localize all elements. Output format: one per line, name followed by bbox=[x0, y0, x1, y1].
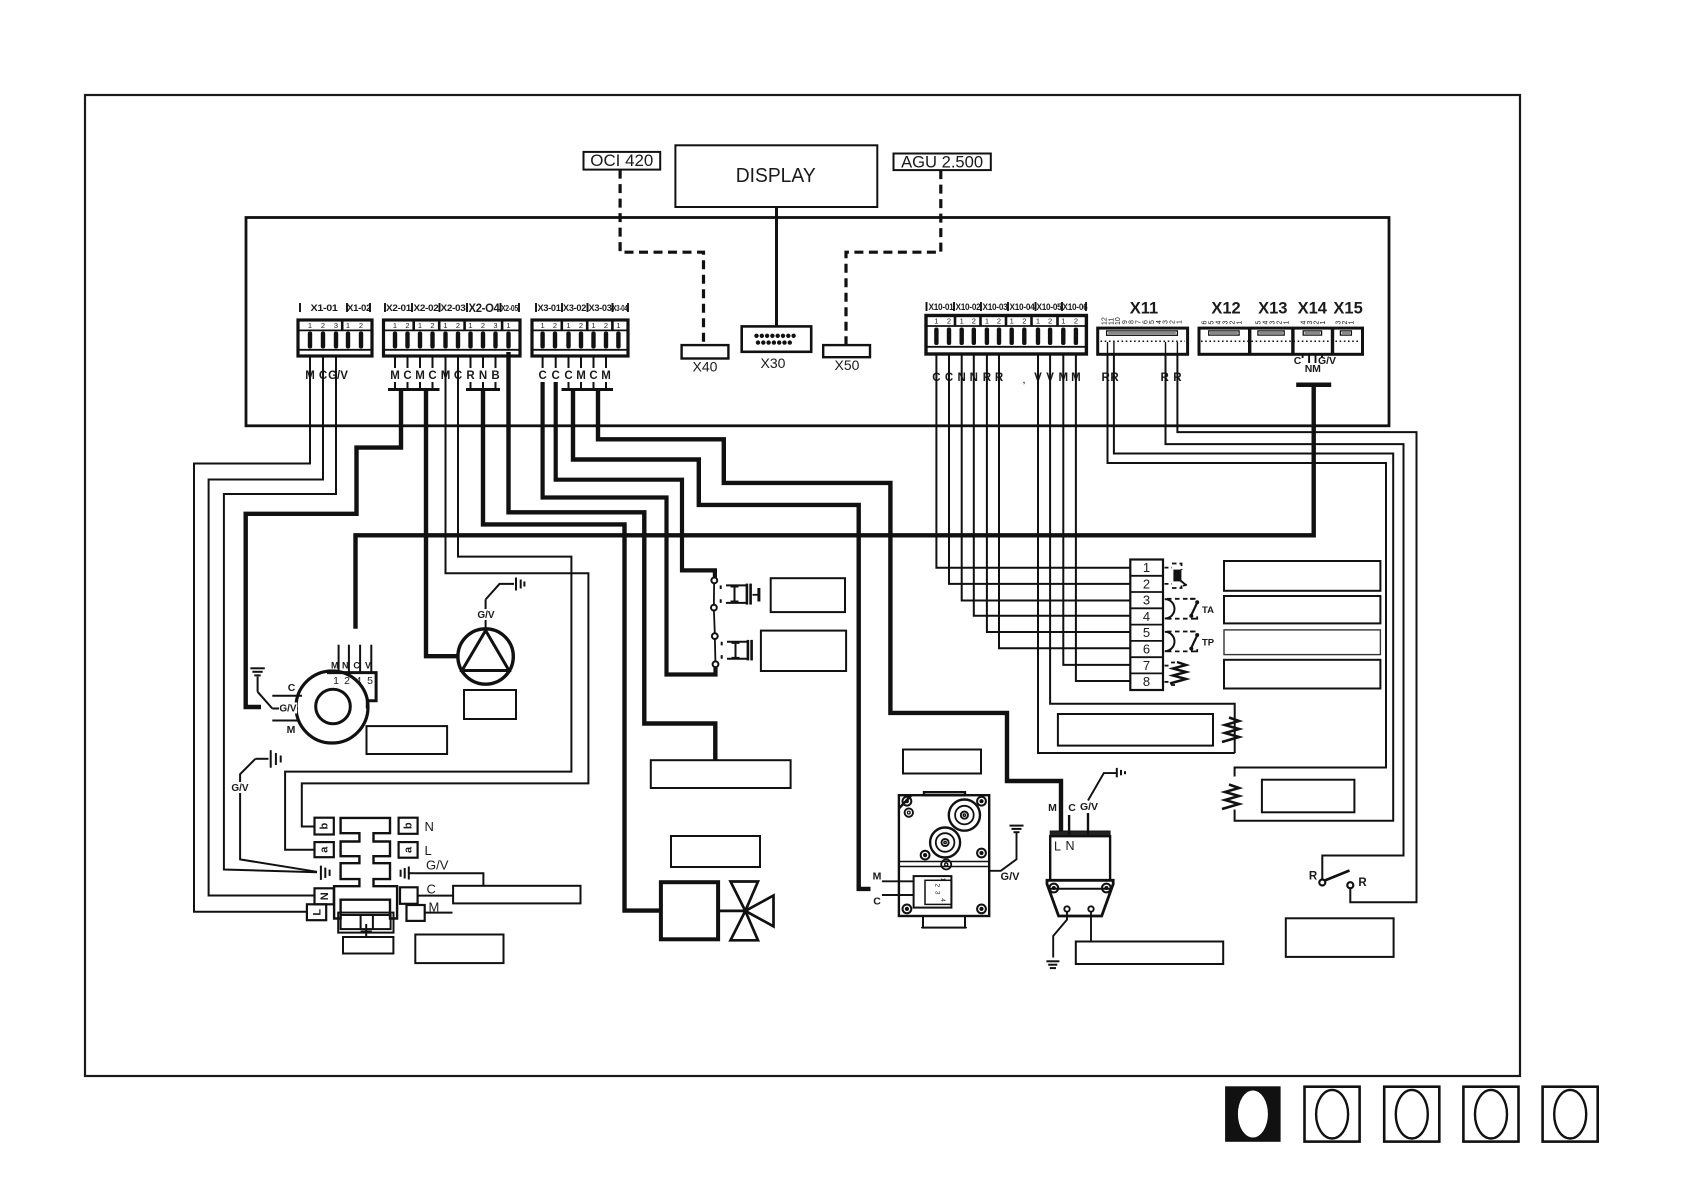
svg-text:X11: X11 bbox=[1130, 300, 1158, 318]
svg-text:G/V: G/V bbox=[231, 783, 249, 794]
svg-text:L: L bbox=[311, 909, 323, 916]
svg-text:X10-03: X10-03 bbox=[983, 302, 1008, 312]
ignition transformer body bbox=[1050, 831, 1110, 836]
svg-text:1: 1 bbox=[308, 321, 312, 330]
svg-text:1: 1 bbox=[566, 321, 570, 330]
svg-text:X10-06: X10-06 bbox=[1063, 302, 1088, 312]
box AGU 2.500 bbox=[894, 154, 991, 172]
svg-text:2: 2 bbox=[344, 675, 350, 687]
wire X2-02 thick cable to pump P bbox=[426, 390, 458, 657]
svg-text:X3-02: X3-02 bbox=[563, 303, 586, 313]
terminal N left bbox=[315, 888, 334, 904]
X14 pin stub wires bbox=[1303, 354, 1322, 363]
svg-text:X15: X15 bbox=[1333, 300, 1362, 318]
svg-text:C: C bbox=[873, 896, 881, 908]
safety thermostat T1 bbox=[711, 578, 759, 611]
svg-text:2: 2 bbox=[947, 317, 951, 326]
legend box strip 5-6 TP bbox=[1224, 630, 1380, 655]
svg-text:G/V: G/V bbox=[477, 610, 495, 621]
wire ignition to earth ground bbox=[1053, 912, 1067, 958]
outside sensor resistor NTC on loop 2 left edge bbox=[1222, 785, 1239, 810]
wire X10-05.1 V sensor loop bottom bbox=[1038, 354, 1235, 753]
checkbox model 4 bbox=[1463, 1087, 1518, 1142]
svg-text:3: 3 bbox=[334, 321, 338, 330]
svg-text:a: a bbox=[403, 846, 415, 853]
X2 pin stub wires bbox=[395, 356, 496, 368]
wire fan earth to terminal ground bbox=[240, 759, 317, 872]
checkbox model 5 bbox=[1543, 1087, 1598, 1142]
connector X11 body bbox=[1098, 328, 1188, 354]
svg-text:X2-O4: X2-O4 bbox=[469, 303, 501, 315]
flame sensor symbol at strip 1-2 bbox=[1165, 564, 1188, 589]
wire X2-05 thick cable to legend box node bbox=[509, 352, 716, 760]
fan motor M1 blower bbox=[296, 671, 376, 743]
svg-text:X1-02: X1-02 bbox=[347, 303, 371, 313]
dashed wire AGU to X50 bbox=[846, 170, 941, 345]
svg-text:3: 3 bbox=[493, 321, 497, 330]
X1 pin labels M C G/V bbox=[305, 370, 348, 382]
svg-text:G/V: G/V bbox=[1080, 801, 1098, 813]
gas valve wire C bbox=[882, 894, 914, 896]
svg-text:8: 8 bbox=[1143, 674, 1150, 689]
svg-text:R: R bbox=[1309, 871, 1318, 883]
svg-text:b: b bbox=[403, 822, 415, 829]
legend box long at terminal block bbox=[453, 886, 580, 904]
svg-text:1: 1 bbox=[591, 321, 595, 330]
wire X11.12 R outside sensor loop top bbox=[1108, 354, 1387, 777]
svg-text:1: 1 bbox=[934, 317, 938, 326]
wire X11.11 R outside sensor loop bottom bbox=[1114, 354, 1393, 821]
svg-text:G/V: G/V bbox=[1318, 355, 1336, 367]
ground symbol fan G/V earth bbox=[255, 750, 280, 768]
wire X11.1 R to pressure switch right bbox=[1177, 354, 1416, 902]
svg-text:X2-01: X2-01 bbox=[386, 303, 411, 313]
checkbox model 3 bbox=[1384, 1087, 1439, 1142]
svg-text:2: 2 bbox=[604, 321, 608, 330]
svg-text:C: C bbox=[427, 882, 436, 897]
svg-text:2: 2 bbox=[997, 317, 1001, 326]
svg-text:1: 1 bbox=[1176, 320, 1183, 324]
legend box thermostat T1 bbox=[771, 578, 845, 612]
svg-text:3: 3 bbox=[1270, 321, 1277, 325]
svg-text:2: 2 bbox=[1143, 576, 1150, 591]
connector X30 bbox=[742, 326, 812, 371]
pump G/V stub and ground bbox=[486, 584, 514, 629]
ground earth below ignition bbox=[1046, 961, 1059, 968]
svg-text:1: 1 bbox=[1237, 321, 1244, 325]
svg-text:N: N bbox=[425, 819, 434, 834]
wire X1 M to terminal L bbox=[194, 368, 310, 912]
connector X10 body bbox=[926, 316, 1086, 355]
svg-text:X2-05: X2-05 bbox=[501, 303, 518, 313]
ignition pin C stub bbox=[1068, 815, 1070, 836]
svg-text:C: C bbox=[403, 370, 411, 382]
legend box gas valve bbox=[903, 750, 981, 774]
svg-text:G/V: G/V bbox=[279, 704, 297, 715]
svg-text:X1-01: X1-01 bbox=[311, 303, 338, 313]
svg-text:b: b bbox=[319, 822, 331, 829]
svg-text:3: 3 bbox=[1223, 321, 1230, 325]
legend box strip 1-2 bbox=[1224, 561, 1380, 591]
X11 pin stubs inside connector bbox=[1108, 342, 1178, 354]
svg-text:1: 1 bbox=[1036, 317, 1040, 326]
sensor resistor at strip 7-8 bbox=[1165, 663, 1177, 686]
terminal a right with label L bbox=[399, 842, 432, 858]
wire X1 G/V to terminal ground bbox=[224, 368, 336, 872]
svg-text:N: N bbox=[1066, 839, 1075, 853]
svg-text:L: L bbox=[1054, 840, 1061, 854]
label G/V on fan earth wire bbox=[231, 782, 250, 794]
fan pin stubs M N C V 1 2 4 5 bbox=[339, 645, 372, 673]
svg-text:G/V: G/V bbox=[328, 370, 348, 382]
terminal M right bbox=[407, 900, 440, 921]
X3 pin stub wires bbox=[543, 356, 606, 368]
gas valve wire M bbox=[882, 880, 914, 882]
fan stub wire M bbox=[272, 720, 299, 722]
junction T-bar X14 bbox=[1296, 383, 1331, 388]
safety thermostat T2 bbox=[712, 633, 753, 667]
svg-text:X50: X50 bbox=[835, 357, 860, 373]
fan stub wire G/V bbox=[272, 708, 298, 710]
wire terminal M stub bbox=[425, 912, 453, 914]
svg-text:2: 2 bbox=[481, 321, 485, 330]
terminal C right bbox=[400, 882, 436, 904]
svg-text:2: 2 bbox=[359, 321, 363, 330]
room thermostat TA symbol at strip 3-4 bbox=[1165, 599, 1197, 619]
svg-text:V: V bbox=[365, 660, 371, 670]
wire X10-02.1 N to strip 3 bbox=[962, 354, 1131, 601]
ground terminal right G/V bbox=[401, 867, 415, 880]
X15 pin numbers 3..1 bbox=[1336, 321, 1356, 325]
svg-text:1: 1 bbox=[1349, 321, 1356, 325]
connector X40 bbox=[682, 345, 729, 374]
svg-text:X10-05: X10-05 bbox=[1037, 302, 1062, 312]
svg-text:4: 4 bbox=[1143, 609, 1150, 624]
svg-text:M: M bbox=[576, 370, 586, 382]
wire X3-01 C2 thick to thermostat chain top bbox=[556, 382, 715, 578]
legend box pressure switch bbox=[1286, 918, 1394, 957]
svg-text:4: 4 bbox=[939, 898, 946, 902]
svg-text:X2-02: X2-02 bbox=[414, 303, 439, 313]
svg-text:N: N bbox=[342, 660, 349, 670]
svg-text:1: 1 bbox=[443, 321, 447, 330]
svg-text:C: C bbox=[353, 660, 360, 670]
svg-text:1: 1 bbox=[346, 321, 350, 330]
legend box strip 7-8 sensor bbox=[1224, 660, 1380, 689]
svg-text:M: M bbox=[390, 370, 400, 382]
wire terminal G/V to legend box bbox=[414, 873, 483, 886]
terminal a left bbox=[315, 842, 334, 857]
svg-text:X2-03: X2-03 bbox=[441, 303, 466, 313]
svg-text:a: a bbox=[319, 846, 331, 853]
junction T-bar X3-03 pair bbox=[587, 382, 613, 390]
X12 pin numbers 6..1 bbox=[1202, 321, 1244, 325]
svg-text:2: 2 bbox=[1277, 321, 1284, 325]
svg-text:2: 2 bbox=[1074, 317, 1078, 326]
wire X3-02 pair thick cable to ignition transformer M bbox=[598, 390, 1061, 837]
gas valve knob 1 bbox=[949, 800, 980, 831]
svg-text:1: 1 bbox=[506, 321, 510, 330]
svg-text:M: M bbox=[331, 660, 339, 670]
svg-text:1: 1 bbox=[1284, 321, 1291, 325]
X14 pin labels C N M G/V bbox=[1294, 355, 1336, 375]
checkbox model 1 selected bbox=[1225, 1086, 1281, 1142]
X2 pin labels M C M C M C R N B bbox=[390, 370, 499, 382]
wire X2-03 M to terminal b bbox=[302, 368, 589, 827]
svg-text:1: 1 bbox=[939, 878, 946, 882]
svg-text:2: 2 bbox=[972, 317, 976, 326]
wire terminal C to legend box bbox=[418, 895, 454, 897]
svg-text:,: , bbox=[1023, 376, 1025, 385]
svg-text:2: 2 bbox=[1048, 317, 1052, 326]
X3 pin labels C C C M C M bbox=[538, 370, 610, 382]
legend box fuse bbox=[343, 937, 393, 954]
svg-text:2: 2 bbox=[1230, 321, 1237, 325]
wire X11.2 R to pressure switch left bbox=[1166, 354, 1404, 879]
svg-text:G/V: G/V bbox=[1001, 871, 1021, 883]
svg-text:1: 1 bbox=[1143, 560, 1150, 575]
svg-text:TP: TP bbox=[1202, 638, 1215, 649]
wire X10-03.2 R to strip 6 bbox=[999, 354, 1130, 648]
svg-text:1: 1 bbox=[333, 675, 339, 687]
wire X10-02.2 N to strip 4 bbox=[974, 354, 1131, 616]
junction T-bar X3-02 pair bbox=[562, 382, 588, 390]
svg-text:2: 2 bbox=[1022, 317, 1026, 326]
wire X10-01.2 C to strip 2 bbox=[949, 354, 1130, 584]
svg-text:B: B bbox=[491, 370, 499, 382]
ground chassis gas valve bbox=[1010, 826, 1024, 833]
ground terminal left bbox=[321, 866, 330, 880]
3-way valve motor box bbox=[661, 882, 718, 939]
gas valve screws bbox=[903, 797, 986, 914]
legend box thermostat T2 bbox=[761, 631, 846, 671]
svg-text:C: C bbox=[288, 682, 296, 694]
svg-text:1: 1 bbox=[418, 321, 422, 330]
wire X10-05.2 V sensor loop top bbox=[1050, 354, 1235, 753]
legend box terminal block bbox=[415, 935, 503, 964]
connector X3 body bbox=[532, 320, 628, 356]
wire X2-01 thick cable to fan area bbox=[246, 390, 401, 708]
connector X1 header bbox=[300, 303, 371, 313]
svg-text:C: C bbox=[1294, 355, 1302, 367]
legend box 3-way valve bbox=[671, 836, 760, 867]
gas valve knob 2 bbox=[930, 828, 960, 858]
svg-text:5: 5 bbox=[1256, 321, 1263, 325]
svg-text:2: 2 bbox=[321, 321, 325, 330]
svg-text:1: 1 bbox=[1010, 317, 1014, 326]
X14 pin numbers 4..1 bbox=[1301, 321, 1328, 325]
junction T-bar X2-02 pair bbox=[413, 382, 440, 390]
boiler thermostat TP symbol at strip 5-6 bbox=[1165, 632, 1197, 652]
wire X3-03 pair thick cable to gas valve bbox=[573, 390, 871, 889]
svg-text:X12: X12 bbox=[1211, 300, 1240, 318]
connector X12-X15 titles bbox=[1211, 300, 1362, 318]
svg-text:2: 2 bbox=[579, 321, 583, 330]
svg-text:X14: X14 bbox=[1298, 300, 1328, 318]
svg-text:R: R bbox=[1358, 877, 1367, 889]
wire DISPLAY to X30 bbox=[775, 207, 778, 326]
svg-text:1: 1 bbox=[960, 317, 964, 326]
svg-text:5: 5 bbox=[1209, 321, 1216, 325]
svg-text:X10-01: X10-01 bbox=[929, 302, 954, 312]
svg-text:5: 5 bbox=[367, 675, 373, 687]
svg-text:1: 1 bbox=[468, 321, 472, 330]
svg-text:C: C bbox=[538, 370, 546, 382]
wire X10-01.1 C to strip 1 bbox=[936, 354, 1130, 568]
svg-text:M: M bbox=[287, 724, 296, 736]
svg-text:G/V: G/V bbox=[426, 858, 449, 873]
connector X1 body bbox=[298, 320, 372, 356]
svg-text:X3-03: X3-03 bbox=[589, 303, 612, 313]
svg-text:X13: X13 bbox=[1258, 300, 1287, 318]
svg-text:C: C bbox=[564, 370, 572, 382]
svg-text:OCI 420: OCI 420 bbox=[590, 152, 653, 170]
X10 pin labels C C N N R R V V M M bbox=[932, 372, 1080, 385]
checkbox model 2 bbox=[1305, 1087, 1360, 1142]
gas valve connector pins 1 2 3 4 bbox=[914, 876, 952, 908]
3-way valve symbol bbox=[718, 882, 773, 941]
pressure switch R contacts bbox=[1309, 871, 1368, 890]
svg-text:7: 7 bbox=[1143, 658, 1150, 673]
svg-text:X3-01: X3-01 bbox=[538, 303, 561, 313]
svg-text:1: 1 bbox=[1061, 317, 1065, 326]
svg-text:1: 1 bbox=[1320, 321, 1327, 325]
wire X2-03 C to terminal a bbox=[285, 368, 571, 850]
wire X1 C to terminal N bbox=[209, 368, 323, 896]
X11 pin labels R R R R bbox=[1101, 372, 1182, 384]
svg-text:4: 4 bbox=[356, 675, 362, 687]
svg-text:1: 1 bbox=[393, 321, 397, 330]
dashed wire OCI420 to X40 bbox=[620, 170, 703, 346]
svg-text:AGU 2.500: AGU 2.500 bbox=[901, 154, 983, 172]
terminal b right with label N bbox=[399, 818, 434, 834]
control unit main box bbox=[246, 218, 1389, 426]
junction T-bar X2-01 pair bbox=[388, 382, 415, 390]
legend box fan bbox=[367, 726, 448, 754]
legend box ignition bbox=[1076, 942, 1223, 965]
gas valve Y1 body bbox=[899, 792, 989, 927]
svg-text:R: R bbox=[466, 370, 475, 382]
wire X10-06.2 M to strip 8 bbox=[1076, 354, 1130, 681]
svg-text:2: 2 bbox=[430, 321, 434, 330]
wire thermostat link T1-T2 bbox=[713, 611, 716, 634]
wire X2-04 R-N-B thick cable to 3-way valve bbox=[483, 390, 661, 911]
legend box mid X2-05 node bbox=[651, 760, 791, 788]
fan stub wire C bbox=[272, 695, 302, 697]
svg-text:M: M bbox=[415, 370, 425, 382]
connector X3 header bbox=[536, 303, 628, 313]
svg-text:C: C bbox=[552, 370, 560, 382]
svg-text:6: 6 bbox=[1202, 321, 1209, 325]
svg-text:TA: TA bbox=[1202, 605, 1214, 616]
wire X10-06.1 M to strip 7 bbox=[1063, 354, 1130, 665]
box OCI 420 bbox=[584, 152, 661, 170]
svg-text:X10-02: X10-02 bbox=[956, 302, 981, 312]
page border frame bbox=[85, 95, 1520, 1076]
connector X50 bbox=[823, 345, 870, 373]
ignition pin G/V stub and earth bbox=[1087, 813, 1089, 836]
svg-text:X30: X30 bbox=[761, 355, 786, 371]
terminal L left bbox=[307, 904, 326, 920]
legend box pump bbox=[464, 690, 516, 719]
svg-text:3: 3 bbox=[1143, 593, 1150, 608]
connector X10 header bbox=[927, 302, 1088, 312]
junction T-bar X2-04 R N B bbox=[466, 382, 500, 390]
svg-text:X10-04: X10-04 bbox=[1010, 302, 1036, 312]
svg-text:4: 4 bbox=[1263, 321, 1270, 325]
terminal b left bbox=[315, 818, 334, 835]
terminal block comb M1 bbox=[334, 818, 397, 919]
ignition transformer base trapezoid bbox=[1047, 880, 1113, 916]
svg-text:C: C bbox=[428, 370, 436, 382]
svg-text:2: 2 bbox=[405, 321, 409, 330]
connector X2 body bbox=[384, 320, 521, 356]
boiler sensor box in loop bbox=[1058, 714, 1213, 746]
wire X3-01 C1 thick to thermostat chain bottom bbox=[543, 382, 716, 675]
X13 pin numbers 5..1 bbox=[1256, 321, 1291, 325]
svg-text:2: 2 bbox=[553, 321, 557, 330]
svg-text:3: 3 bbox=[934, 891, 941, 895]
outside sensor box in loop 2 bbox=[1262, 780, 1355, 813]
X11 pin numbers 12..1 bbox=[1102, 317, 1184, 325]
X1 pin stub wires bbox=[310, 356, 336, 368]
svg-text:N: N bbox=[319, 892, 331, 900]
svg-text:6: 6 bbox=[1143, 642, 1150, 657]
wire X10-03.1 R to strip 5 bbox=[987, 354, 1130, 632]
wire X14 bundle thick cable to fan connector bbox=[356, 385, 1314, 629]
svg-text:2: 2 bbox=[456, 321, 460, 330]
svg-text:X40: X40 bbox=[693, 359, 718, 375]
svg-text:2: 2 bbox=[934, 884, 941, 888]
svg-text:C: C bbox=[1068, 802, 1076, 814]
svg-text:X3-04: X3-04 bbox=[613, 304, 629, 313]
box DISPLAY bbox=[675, 145, 877, 207]
connector X12-X15 body bbox=[1199, 328, 1363, 354]
svg-text:L: L bbox=[425, 843, 432, 858]
connector X2 header bbox=[385, 303, 519, 315]
svg-text:1: 1 bbox=[541, 321, 545, 330]
svg-text:1: 1 bbox=[985, 317, 989, 326]
ground chassis near fan bbox=[250, 668, 272, 708]
svg-text:4: 4 bbox=[1216, 321, 1223, 325]
svg-text:C: C bbox=[589, 370, 597, 382]
svg-text:M: M bbox=[873, 871, 882, 883]
sensor resistor NTC on loop right edge bbox=[1222, 718, 1239, 743]
legend box strip 3-4 TA bbox=[1224, 596, 1380, 623]
wire ignition to legend box bbox=[1090, 912, 1092, 942]
pump P circulator bbox=[458, 629, 513, 684]
fuse holder F1 bbox=[338, 913, 393, 937]
svg-text:5: 5 bbox=[1143, 625, 1150, 640]
terminal strip 1-8 bbox=[1130, 560, 1163, 691]
svg-text:N: N bbox=[479, 370, 487, 382]
svg-text:M: M bbox=[1048, 802, 1057, 814]
svg-text:R: R bbox=[1101, 372, 1110, 384]
svg-text:1: 1 bbox=[616, 321, 620, 330]
svg-text:DISPLAY: DISPLAY bbox=[736, 165, 816, 187]
svg-text:M: M bbox=[601, 370, 611, 382]
